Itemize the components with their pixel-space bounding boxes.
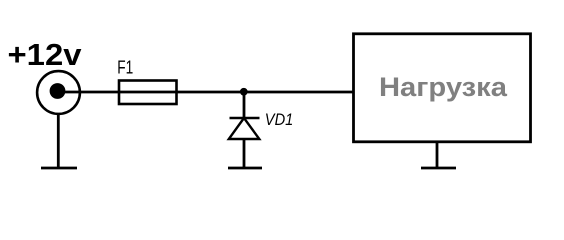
- fuse F1 body: [119, 81, 177, 105]
- svg-text:Нагрузка: Нагрузка: [379, 72, 507, 102]
- connector J1 outer circle: [37, 71, 80, 114]
- wire junction to diode: [243, 92, 246, 118]
- connector J1 center pin dot: [50, 83, 66, 99]
- wire connector to ground: [57, 113, 60, 168]
- ground under diode: [228, 167, 262, 170]
- wire main horizontal from connector to load: [58, 91, 353, 94]
- svg-text:VD1: VD1: [265, 111, 294, 129]
- diode VD1 cathode bar: [230, 117, 260, 120]
- svg-text:+12v: +12v: [8, 37, 83, 72]
- ground under load: [421, 167, 456, 170]
- wire diode to ground: [243, 139, 246, 168]
- svg-text:F1: F1: [117, 57, 133, 78]
- wire load to ground: [436, 142, 439, 168]
- ground under connector: [41, 167, 77, 170]
- diode VD1 triangle: [229, 118, 259, 139]
- node junction dot: [240, 88, 248, 96]
- load box: [354, 34, 531, 142]
